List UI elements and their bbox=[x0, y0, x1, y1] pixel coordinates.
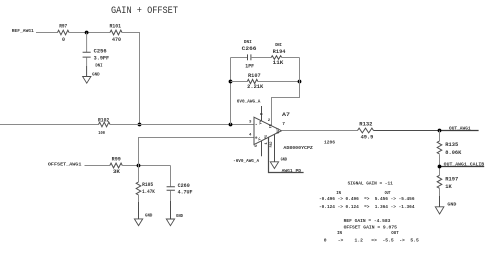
svg-text:SIGNAL GAIN = -11: SIGNAL GAIN = -11 bbox=[348, 180, 393, 186]
svg-text:GND: GND bbox=[281, 156, 288, 162]
wire R101 down to main line bbox=[122, 33, 140, 125]
net label OUT_AWG1_CALIB bbox=[438, 162, 485, 169]
capacitor C260 bbox=[167, 166, 193, 220]
wire R97 to R101 bbox=[69, 32, 110, 34]
op-amp U A7 bbox=[249, 111, 313, 151]
svg-text:REF_AWG1: REF_AWG1 bbox=[12, 28, 34, 34]
svg-text:R132: R132 bbox=[359, 121, 372, 127]
svg-text:470: 470 bbox=[112, 37, 121, 43]
svg-text:3.9PF: 3.9PF bbox=[94, 56, 109, 62]
wire output to R132 bbox=[282, 130, 358, 132]
svg-text:6V0_AWG_A: 6V0_AWG_A bbox=[237, 99, 261, 105]
svg-text:2.21K: 2.21K bbox=[247, 84, 263, 90]
svg-text:OFFSET_AWG1: OFFSET_AWG1 bbox=[48, 161, 82, 167]
resistor R99 bbox=[110, 157, 123, 175]
svg-text:1K: 1K bbox=[445, 184, 452, 190]
svg-text:GND: GND bbox=[447, 202, 456, 208]
wire OFFSET_AWG1 to R99 bbox=[85, 165, 110, 167]
wire PD pin 1 to AWG1_PD bbox=[269, 138, 304, 173]
svg-text:GND: GND bbox=[176, 213, 183, 219]
svg-text:C260: C260 bbox=[178, 183, 190, 189]
svg-text:5: 5 bbox=[255, 144, 259, 147]
svg-text:PAD: PAD bbox=[269, 142, 273, 148]
wire R132 to OUT_AWG1 bbox=[374, 130, 440, 132]
node junction offset bbox=[137, 164, 141, 168]
svg-text:-0.496 -> 0.496 => 5.456 ->: -0.496 -> 0.496 => 5.456 -> -5.456 bbox=[319, 196, 415, 202]
resistor R135 bbox=[437, 141, 461, 156]
svg-text:OUT: OUT bbox=[391, 230, 399, 236]
svg-text:C266: C266 bbox=[242, 46, 257, 52]
svg-text:R102: R102 bbox=[98, 117, 109, 123]
capacitor C256 bbox=[83, 33, 110, 77]
svg-text:4.7UF: 4.7UF bbox=[178, 190, 193, 196]
svg-text:GND: GND bbox=[92, 71, 100, 77]
wire output down to R135 bbox=[439, 131, 441, 142]
svg-text:IN: IN bbox=[337, 230, 342, 236]
wire C266 to R194 bbox=[251, 57, 271, 59]
wire R107 to right node bbox=[258, 81, 300, 83]
ground for C256 bbox=[83, 71, 100, 83]
svg-text:1PF: 1PF bbox=[245, 64, 254, 70]
svg-text:-: - bbox=[255, 122, 258, 128]
ground for PAD bbox=[270, 156, 287, 168]
svg-text:OUT_AWG1: OUT_AWG1 bbox=[449, 126, 471, 132]
svg-text:R101: R101 bbox=[110, 23, 122, 29]
svg-text:V+: V+ bbox=[259, 121, 263, 125]
svg-text:PD: PD bbox=[264, 135, 268, 139]
wire PAD pin stub bbox=[274, 134, 276, 162]
node junction R107 left bbox=[229, 80, 233, 84]
node junction at C256 tap bbox=[85, 31, 89, 35]
resistor R102 bbox=[98, 117, 110, 136]
resistor R105 bbox=[136, 166, 155, 219]
resistor R107 bbox=[247, 73, 263, 90]
svg-text:OUT_AWG1_CALIB: OUT_AWG1_CALIB bbox=[444, 162, 485, 168]
svg-text:R194: R194 bbox=[273, 49, 286, 55]
svg-text:-6V0_AWG_A: -6V0_AWG_A bbox=[233, 158, 259, 164]
wire op-amp V+ pin 8 stub bbox=[261, 106, 263, 121]
svg-text:-0.124 -> 0.124 => 1.364 ->: -0.124 -> 0.124 => 1.364 -> -1.364 bbox=[319, 204, 415, 210]
svg-text:DNI: DNI bbox=[95, 64, 103, 68]
svg-text:A7: A7 bbox=[282, 111, 290, 118]
svg-text:11K: 11K bbox=[273, 60, 284, 66]
node junction R101/main bbox=[138, 123, 142, 127]
svg-text:R107: R107 bbox=[248, 73, 261, 79]
svg-text:AWG1_PD: AWG1_PD bbox=[282, 168, 302, 174]
wire R197 to ground bbox=[439, 188, 441, 196]
svg-text:AD8000YCPZ: AD8000YCPZ bbox=[283, 145, 313, 151]
svg-text:R135: R135 bbox=[445, 142, 458, 148]
ground for C260 bbox=[166, 213, 183, 226]
svg-text:OFFSET GAIN = 9.075: OFFSET GAIN = 9.075 bbox=[344, 225, 398, 231]
wire offset up to op-amp pin 4 bbox=[139, 138, 255, 166]
wire main input line left bbox=[0, 124, 99, 126]
svg-text:1.47K: 1.47K bbox=[142, 189, 155, 195]
svg-text:R105: R105 bbox=[142, 182, 153, 188]
svg-text:3K: 3K bbox=[113, 169, 120, 175]
svg-text:OUT: OUT bbox=[385, 190, 391, 196]
wire REF_AWG1 to R97 bbox=[36, 32, 58, 34]
svg-text:0: 0 bbox=[62, 37, 65, 43]
svg-text:R99: R99 bbox=[112, 157, 121, 163]
wire R194 to right vertical bbox=[282, 57, 300, 59]
note signal gain text block bbox=[319, 180, 419, 243]
svg-text:REF GAIN = -4.583: REF GAIN = -4.583 bbox=[344, 218, 391, 224]
resistor R194 bbox=[271, 44, 285, 66]
svg-text:R97: R97 bbox=[59, 23, 67, 29]
svg-text:1206: 1206 bbox=[324, 140, 335, 146]
wire feedback right vertical and to FB pin bbox=[272, 58, 300, 126]
ground for R105 bbox=[134, 213, 152, 226]
resistor R97 bbox=[58, 23, 70, 43]
wire top branch to C266 bbox=[231, 57, 248, 59]
resistor R132 bbox=[358, 121, 374, 140]
svg-text:GND: GND bbox=[145, 213, 153, 219]
svg-text:DNI: DNI bbox=[244, 41, 252, 45]
wire R135 to R197 bbox=[439, 154, 441, 175]
resistor R197 bbox=[437, 175, 458, 190]
svg-text:R197: R197 bbox=[445, 176, 458, 182]
node junction feedback tap bbox=[229, 123, 233, 127]
capacitor C266 bbox=[242, 41, 257, 69]
wire main line to op-amp pin 3 bbox=[110, 124, 254, 126]
svg-text:V-: V- bbox=[258, 137, 262, 141]
wire R99 to C260 tap bbox=[122, 165, 170, 167]
svg-text:C256: C256 bbox=[94, 49, 107, 55]
svg-text:0 -> 1.2 => -5.5 ->: 0 -> 1.2 => -5.5 -> 5.5 bbox=[324, 238, 419, 244]
svg-text:FB: FB bbox=[269, 124, 273, 128]
svg-text:DNI: DNI bbox=[275, 44, 282, 48]
svg-text:GAIN + OFFSET: GAIN + OFFSET bbox=[111, 5, 178, 17]
node junction R107 right bbox=[298, 80, 302, 84]
wire R107 branch left bbox=[231, 81, 248, 83]
svg-text:OUT: OUT bbox=[276, 128, 280, 134]
wire op-amp V- pin 5 stub bbox=[261, 141, 263, 156]
resistor R101 bbox=[110, 23, 123, 43]
svg-text:IN: IN bbox=[336, 190, 341, 196]
wire feedback left vertical bbox=[230, 58, 232, 125]
svg-text:100: 100 bbox=[98, 130, 105, 136]
svg-text:7: 7 bbox=[282, 121, 285, 127]
svg-text:49.9: 49.9 bbox=[361, 135, 374, 141]
node junction output bbox=[438, 129, 442, 133]
ground for R197 bbox=[435, 202, 456, 214]
svg-text:8.06K: 8.06K bbox=[445, 150, 461, 156]
